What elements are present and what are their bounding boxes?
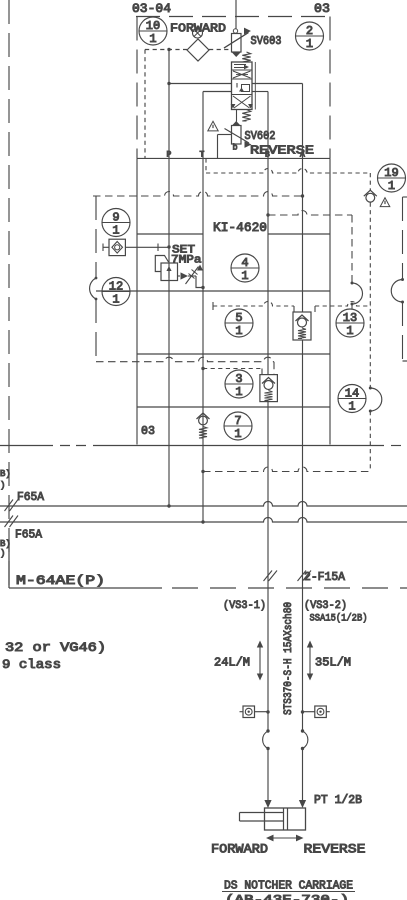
wire y291 [96,290,330,292]
pilot dashed line y306 [213,302,371,313]
valve triangle a (filled) [232,53,241,58]
drain dashed from ports line [206,158,370,190]
svg-text:): ) [0,549,5,559]
svg-text:FORWARD: FORWARD [211,843,268,857]
relief valve body [161,263,178,281]
svg-text:4: 4 [241,256,248,270]
svg-text:03-04: 03-04 [132,2,171,16]
svg-text:1: 1 [149,32,156,46]
label KI-4620 [213,221,267,235]
station 03 box left edge (dashed) [136,17,138,159]
relief valve internal arrow [166,266,171,278]
svg-text:F65A: F65A [15,529,42,542]
balloon 4/1 [231,254,259,283]
title drawing number (cut) [225,894,349,900]
drain dashed line y471 [201,467,370,473]
hose break ticks B line [264,571,278,582]
wire B riser upper [267,92,269,375]
valve body position 3 blocked [237,83,250,92]
svg-text:03: 03 [314,2,330,16]
svg-text:F65A: F65A [17,491,44,504]
svg-text:9: 9 [112,210,119,224]
svg-text:7: 7 [234,414,241,428]
svg-text:1: 1 [241,269,248,283]
balloon 2/1 [296,22,324,51]
svg-text:2: 2 [306,24,313,38]
svg-text:PT 1/2B: PT 1/2B [314,794,362,807]
orifice symbol above filter [193,28,203,38]
cut label class [2,658,61,672]
label F65A 2 [15,529,42,542]
label F65A 1 [17,491,44,504]
balloon 13/1 [336,309,364,338]
label FORWARD [170,22,226,36]
label SV602 [245,130,276,143]
hose break ticks line1 [5,500,19,512]
hose break ticks line2 [5,516,19,528]
warning triangle at SV602 [208,121,218,131]
svg-text:KI-4620: KI-4620 [213,221,267,235]
coupling box [109,239,125,255]
label 03 top right [314,2,330,16]
label SV603 [251,35,282,48]
check valve on T riser [197,413,210,438]
cut label 1B [0,469,11,479]
solenoid SV602 proportional arrow [225,129,252,148]
svg-text:M-64AE(P): M-64AE(P) [16,574,105,588]
solenoid SV603 box [232,34,242,53]
hose arc on B [263,729,270,750]
svg-text:13: 13 [343,311,357,325]
pilot dashed line y215 [266,211,352,217]
balloon 5/1 [225,309,253,338]
label STS370 hose (vertical) [283,602,295,715]
wire valve to A riser [252,83,303,85]
filter box dashed edge [144,50,146,159]
balloon 14/1 [338,385,366,414]
label VS3-1 [223,600,266,612]
wire coupling to P [125,245,170,248]
svg-text:32 or VG46): 32 or VG46) [5,641,106,655]
svg-text:24L/M: 24L/M [214,657,250,670]
svg-text:1: 1 [306,37,313,51]
svg-text:T: T [200,151,205,160]
valve body position 2 cross [233,71,251,78]
svg-text:SSA15(1/2B): SSA15(1/2B) [310,613,368,625]
ports line [137,157,330,159]
svg-text:10: 10 [146,19,160,33]
svg-text:03: 03 [141,424,155,438]
wire A to cylinder [299,749,306,809]
valve port b label [233,143,238,153]
svg-text:1: 1 [348,400,355,414]
drain dashed riser x370 [369,203,382,472]
flow arrow 35L/M [307,641,351,681]
wire y354 [137,353,330,355]
cut label oil spec [5,641,106,655]
balloon 19/1 [378,164,406,193]
hose break ticks A line [298,571,312,582]
coupling line tick [157,244,159,252]
wire F65A line 2 [0,518,407,524]
pilot dashed riser x352 [351,215,363,309]
filter pilot dashed line [145,49,232,51]
label 2-F15A [304,571,345,584]
wire T to valve [203,91,232,93]
svg-text:9 class: 9 class [2,658,61,672]
relief valve outlet arrow [178,272,197,279]
stroke direction arrow [266,835,304,842]
label 03 station [141,424,155,438]
valve spring bottom [242,110,250,122]
svg-text:1: 1 [235,385,242,399]
svg-text:SV603: SV603 [251,35,282,48]
valve port a circle [233,29,237,33]
valve body position 1 arrow [234,65,249,70]
label 03-04 [132,2,171,16]
title DS NOTCHER CARRIAGE [222,880,355,893]
svg-text:35L/M: 35L/M [315,657,351,670]
station 03 box top edge (dashed) [136,16,330,18]
wire SV602 to ports line [218,135,232,159]
svg-text:19: 19 [384,166,398,180]
relief valve adjust arrow [186,265,204,285]
manifold left dashed edge [90,196,98,362]
wire A riser upper [302,84,304,313]
label FORWARD bottom [211,843,268,857]
check valve at 19 [364,190,377,202]
valve triangle b (filled) [232,121,241,126]
cut label 1b [0,481,5,491]
label M-64AE(P) [16,574,105,588]
right dashed box top [403,196,407,198]
wire y407 [137,406,330,408]
port label B [265,151,270,160]
manifold top dashed line [93,192,304,198]
coupling stub tick [103,244,109,252]
svg-text:1: 1 [235,324,242,338]
wire y234 right [268,233,330,235]
svg-text:STS370-S-H 15AXsch80: STS370-S-H 15AXsch80 [283,602,295,715]
wire y234 left [137,233,203,235]
cylinder rod [240,813,284,822]
svg-text:REVERSE: REVERSE [304,843,366,857]
station 03 box right edge (dashed) [329,17,331,159]
svg-text:14: 14 [345,386,359,400]
balloon 7/1 [224,412,252,441]
valve stem to solenoid b [236,110,238,122]
port label A [300,151,305,160]
check valve box 1 (pilot operated) [293,312,311,340]
valve body position 4 cross arrows [231,96,253,109]
svg-text:SV602: SV602 [245,130,276,143]
wire A riser lower [302,340,304,731]
solenoid SV603 proportional arrow [224,28,251,48]
svg-text:2-F15A: 2-F15A [304,571,345,584]
svg-text:): ) [0,481,5,491]
test point on B [240,706,270,718]
port label P [167,151,172,160]
svg-text:1: 1 [388,179,395,193]
balloon 3/1 [225,370,253,399]
svg-text:7MPa: 7MPa [171,255,202,267]
warning triangle at 19 [380,198,390,207]
cylinder PT (body) [265,808,306,830]
flow arrow 24L/M [214,641,263,681]
balloon 12/1 [102,278,130,307]
label REVERSE [250,144,314,158]
svg-text:b: b [233,143,238,153]
wire B riser lower [267,402,269,731]
valve inlet line from page top [235,0,237,29]
label PT 1/2B [314,794,362,807]
svg-text:1: 1 [234,427,241,441]
svg-text:5: 5 [235,311,242,325]
wire y445 line [0,445,407,447]
svg-text:1: 1 [346,324,353,338]
filter F (diamond) [187,39,209,61]
hose arc on A [301,729,308,750]
label SET 7MPa [171,245,202,267]
wire x330 riser [329,158,331,444]
drain dashed line y368 [201,367,262,375]
manifold bottom dashed line [96,357,274,374]
balloon 10/1 [139,17,167,46]
label VS3-2 [304,600,347,612]
label SSA15 [310,613,368,625]
wire x137 riser [136,158,138,444]
svg-text:B): B) [0,469,11,479]
cut label 2B [0,539,11,549]
valve spring top [242,52,250,62]
check valve box 2 (pilot operated) [260,375,278,402]
wire valve to B riser [252,91,268,93]
right dashed box edge [391,197,407,361]
wire B to cylinder [264,749,271,809]
svg-text:1: 1 [112,293,119,307]
wire F65A line 1 [0,502,407,508]
wire T riser [202,92,204,523]
relief valve pilot loop [155,256,168,272]
test point on A [301,706,330,718]
module boundary line [9,540,407,588]
valve body [232,62,256,110]
svg-text:1: 1 [112,224,119,238]
page left border (dashed) [8,0,10,588]
relief valve drain to T [196,276,205,289]
svg-text:DS NOTCHER CARRIAGE: DS NOTCHER CARRIAGE [224,880,353,893]
node P pilot junction [167,48,170,51]
svg-text:(VS3-2): (VS3-2) [304,600,347,612]
wire P to valve [167,82,231,85]
svg-text:3: 3 [235,372,242,386]
port label T [200,151,205,160]
balloon 9/1 [102,209,130,238]
svg-text:(VS3-1): (VS3-1) [223,600,266,612]
label REVERSE bottom [304,843,366,857]
cut label 2b [0,549,5,559]
svg-text:(AB-43E-730-): (AB-43E-730-) [225,894,349,900]
wire P riser [168,50,170,507]
solenoid SV602 box [232,126,242,145]
